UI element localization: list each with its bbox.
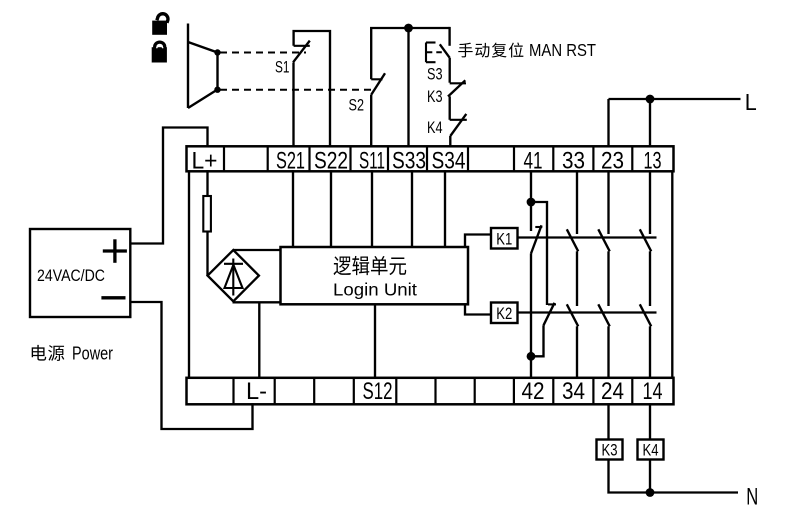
guard door symbol (hinge + flap) — [188, 24, 218, 109]
switch S2 (NC door contact) — [371, 73, 385, 95]
svg-text:L: L — [745, 89, 757, 115]
label 手动复位 MAN RST — [458, 40, 596, 60]
svg-text:K1: K1 — [496, 230, 512, 249]
relay coil K2 box — [491, 303, 518, 324]
wire 41 left path upper — [530, 202, 532, 231]
K2 actuation line — [518, 311, 657, 313]
wire S21 riser / S1 loop top / S22 leg — [294, 31, 331, 147]
wire 23 riser to L — [607, 99, 609, 147]
svg-text:L+: L+ — [192, 148, 218, 175]
wire 34 drop — [576, 326, 578, 379]
wire S3 chain top stub — [448, 27, 450, 46]
plus symbol — [103, 239, 127, 262]
contactor coil K4 box — [638, 440, 664, 460]
wire S33 to logic unit — [411, 170, 413, 247]
svg-text:N: N — [746, 483, 758, 510]
node 42 junction bottom — [527, 352, 536, 361]
wire between contacts (column 13-14) — [649, 251, 651, 306]
wire 13 riser to K1 contact — [649, 170, 651, 234]
wire - return to L- — [130, 302, 252, 429]
contact K2 NC (41-42 right path) — [544, 303, 557, 326]
pushbutton S3 (manual reset, NO) — [426, 43, 450, 63]
wire L- tap — [258, 302, 260, 379]
contact K4 (NC aux of contactor K4) — [450, 114, 467, 136]
wire K1 feed — [465, 235, 491, 248]
wire 24 to K3 coil — [607, 403, 609, 439]
svg-text:S21: S21 — [276, 148, 305, 175]
wire N supply line — [650, 491, 738, 493]
wire between contacts (column 33-34) — [576, 251, 578, 306]
wire L+ internal drop — [206, 170, 208, 275]
svg-text:Login Unit: Login Unit — [333, 280, 417, 300]
wire K4 to N — [649, 460, 651, 493]
wire bypass to bottom node — [531, 325, 544, 356]
body outline right edge — [671, 171, 673, 377]
svg-text:14: 14 — [643, 378, 663, 405]
svg-text:S1: S1 — [275, 58, 290, 77]
contact K1 NO (column 33-34) — [567, 229, 578, 251]
wire between contacts (column 23-24) — [607, 251, 609, 306]
svg-text:13: 13 — [644, 148, 662, 175]
svg-text:S33: S33 — [392, 148, 426, 175]
wire 24 drop — [607, 326, 609, 379]
node A junction on S33 column — [404, 24, 413, 33]
svg-text:K4: K4 — [643, 441, 659, 460]
contact K2 NO (column 23-24) — [598, 304, 609, 326]
node N junction — [646, 488, 655, 497]
wire 13 riser to L — [649, 99, 651, 147]
node L junction — [646, 95, 655, 104]
contact K3 (NC aux of contactor K3) — [448, 80, 466, 96]
wire S33 riser — [407, 28, 409, 147]
svg-text:MAN RST: MAN RST — [529, 40, 596, 60]
mechanical link dashed line to S2 — [220, 89, 372, 91]
svg-text:42: 42 — [522, 378, 545, 405]
relay coil K1 box — [491, 228, 518, 249]
wire rectifier + output to logic unit — [233, 249, 280, 251]
svg-text:K2: K2 — [496, 304, 512, 323]
label 逻辑单元 — [333, 256, 406, 275]
contact K1 NO (column 13-14) — [640, 229, 651, 251]
svg-text:K4: K4 — [427, 118, 443, 137]
mechanical link dashed line to S1 — [220, 52, 306, 54]
wire S21 to logic unit — [292, 170, 294, 247]
contact K1 NO (column 23-24) — [598, 229, 609, 251]
padlock icon top (open) — [152, 12, 169, 34]
wire 41 riser — [530, 170, 532, 202]
contact K2 NO (column 33-34) — [567, 304, 578, 326]
node 41 junction top — [527, 198, 536, 207]
terminal row bottom — [187, 378, 674, 405]
padlock icon bottom (closed) — [152, 42, 167, 62]
wire 14 to K4 coil — [649, 403, 651, 439]
svg-text:S2: S2 — [349, 96, 365, 115]
svg-text:34: 34 — [562, 378, 585, 405]
svg-text:S12: S12 — [363, 378, 393, 405]
wire K3 to K4 — [449, 96, 451, 120]
bridge rectifier — [208, 250, 259, 301]
svg-text:24VAC/DC: 24VAC/DC — [37, 267, 105, 285]
wire L supply line — [609, 98, 741, 100]
svg-text:S3: S3 — [427, 65, 443, 84]
svg-text:Power: Power — [72, 344, 113, 364]
switch S1 (NC door contact) — [293, 41, 310, 63]
wire S12 from logic unit — [374, 304, 376, 379]
contact K2 NO (column 13-14) — [640, 304, 651, 326]
svg-text:S34: S34 — [432, 148, 466, 175]
svg-text:23: 23 — [601, 148, 624, 175]
svg-text:41: 41 — [524, 148, 543, 175]
svg-text:24: 24 — [601, 378, 624, 405]
wire 14 drop — [649, 326, 651, 379]
contactor coil K3 box — [597, 440, 623, 460]
wire K4 to terminal S34 — [449, 136, 451, 147]
power supply box 24VAC/DC — [30, 229, 130, 317]
wire 41 left path lower — [530, 254, 532, 357]
wire 33 riser to K1 contact — [576, 170, 578, 234]
svg-text:K3: K3 — [427, 87, 443, 106]
svg-text:L-: L- — [246, 378, 267, 405]
wire 41 bypass branch — [531, 202, 547, 305]
wire rectifier - output to logic unit — [233, 301, 281, 303]
wire 42 drop — [530, 356, 532, 379]
wire S22 to logic unit — [330, 170, 332, 247]
door contact point upper — [214, 49, 220, 55]
wire S11 to logic unit — [371, 170, 373, 247]
K1 actuation line — [518, 236, 657, 238]
terminal labels bottom row — [246, 378, 663, 405]
svg-text:K3: K3 — [602, 441, 618, 460]
wire 23 riser to K1 contact — [607, 170, 609, 234]
logic unit box — [281, 247, 469, 304]
wire S3 to K3 — [449, 58, 451, 83]
wire S34 to logic unit — [444, 170, 446, 247]
svg-text:33: 33 — [562, 148, 585, 175]
wire + feed to L+ — [130, 128, 207, 244]
body outline left edge — [188, 171, 190, 377]
wire S11 riser / S2 loop top to node A — [371, 28, 449, 147]
terminal row top — [187, 146, 674, 171]
label 电源 Power — [32, 344, 113, 364]
wire K3 to N — [609, 460, 651, 493]
contact K1 NC (41-42 left path) — [531, 225, 542, 253]
wire K2 feed — [465, 304, 491, 315]
rectifier diode — [224, 259, 243, 296]
fuse F1 — [203, 196, 211, 232]
minus symbol — [101, 296, 125, 299]
door contact point lower — [214, 87, 220, 93]
terminal labels top row — [192, 148, 662, 175]
